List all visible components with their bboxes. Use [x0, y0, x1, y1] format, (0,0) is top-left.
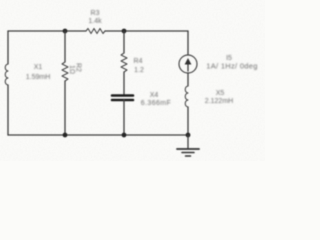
- resistor R3: [86, 29, 105, 34]
- resistor R2: [62, 62, 68, 81]
- node junction top R4: [122, 29, 127, 34]
- background texture: [0, 0, 265, 161]
- node junction bottom R4: [122, 133, 127, 138]
- svg-text:1Ω: 1Ω: [68, 65, 75, 74]
- node junction top R2: [63, 29, 68, 34]
- ground: [177, 148, 199, 150]
- capacitor X4: [112, 94, 133, 97]
- wire R2 branch lower: [64, 81, 66, 135]
- svg-text:1A/ 1Hz/ 0deg: 1A/ 1Hz/ 0deg: [206, 62, 257, 71]
- wire capacitor lower: [123, 100, 125, 135]
- svg-text:R4: R4: [134, 58, 143, 65]
- resistor R4: [121, 53, 127, 72]
- inductor X5: [185, 86, 188, 107]
- svg-text:X1: X1: [34, 64, 43, 71]
- wire left branch lower: [7, 85, 9, 135]
- svg-text:X5: X5: [216, 90, 225, 97]
- svg-text:1.2: 1.2: [134, 67, 144, 74]
- wire right branch top: [187, 31, 189, 55]
- node junction bottom R2: [63, 133, 68, 138]
- wire R4 to capacitor: [123, 72, 125, 95]
- wire left branch upper: [7, 31, 9, 64]
- svg-text:1.59mH: 1.59mH: [26, 74, 51, 81]
- svg-text:2.122mH: 2.122mH: [205, 98, 233, 105]
- svg-text:1.4k: 1.4k: [88, 18, 102, 25]
- svg-text:R3: R3: [91, 10, 100, 17]
- node junction bottom right: [186, 133, 191, 138]
- current source I5: [179, 55, 197, 73]
- wire R4 branch upper: [123, 31, 125, 53]
- inductor X1: [5, 64, 8, 85]
- svg-text:6.366mF: 6.366mF: [141, 100, 171, 107]
- wire X5 lower: [187, 107, 189, 135]
- wire bottom: [8, 134, 188, 136]
- wire source to X5: [187, 73, 189, 86]
- wire top right segment: [105, 30, 188, 32]
- wire ground stub: [187, 135, 189, 148]
- wire R2 branch upper: [64, 31, 66, 62]
- wire top left segment: [8, 30, 86, 32]
- svg-text:X4: X4: [150, 92, 159, 99]
